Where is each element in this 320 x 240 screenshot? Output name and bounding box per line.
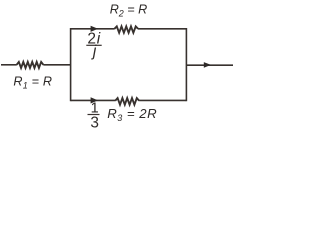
svg-text:R1 = R: R1 = R — [13, 74, 52, 90]
label fraction 1/3 denominator — [90, 114, 99, 131]
wire: top branch — [71, 28, 187, 30]
label fraction 1/3 numerator — [91, 100, 99, 116]
wire: bottom branch — [71, 99, 187, 101]
wire: left lead — [1, 64, 71, 66]
label fraction 2i/j numerator — [87, 31, 101, 48]
output current arrow — [204, 62, 211, 68]
current arrow i3 (bottom branch) — [91, 97, 98, 103]
resistor R3 — [115, 98, 139, 105]
wire: output lead — [186, 64, 233, 66]
label R1 = R — [13, 74, 52, 90]
wire: left junction vertical — [70, 28, 72, 101]
resistor R2 — [114, 26, 138, 32]
wire: right junction vertical — [185, 28, 187, 101]
label fraction 2i/j bar — [86, 44, 101, 46]
label fraction 1/3 bar — [88, 114, 100, 116]
label R2 = R — [110, 3, 148, 19]
svg-text:R2 = R: R2 = R — [110, 3, 148, 19]
svg-text:R3 = 2R: R3 = 2R — [107, 106, 157, 123]
label fraction 2i/j denominator — [91, 43, 97, 60]
current arrow i2 (top branch) — [91, 26, 98, 32]
resistor R1 — [17, 62, 44, 68]
svg-text:3: 3 — [90, 114, 99, 131]
label R3 = 2R — [107, 106, 157, 123]
